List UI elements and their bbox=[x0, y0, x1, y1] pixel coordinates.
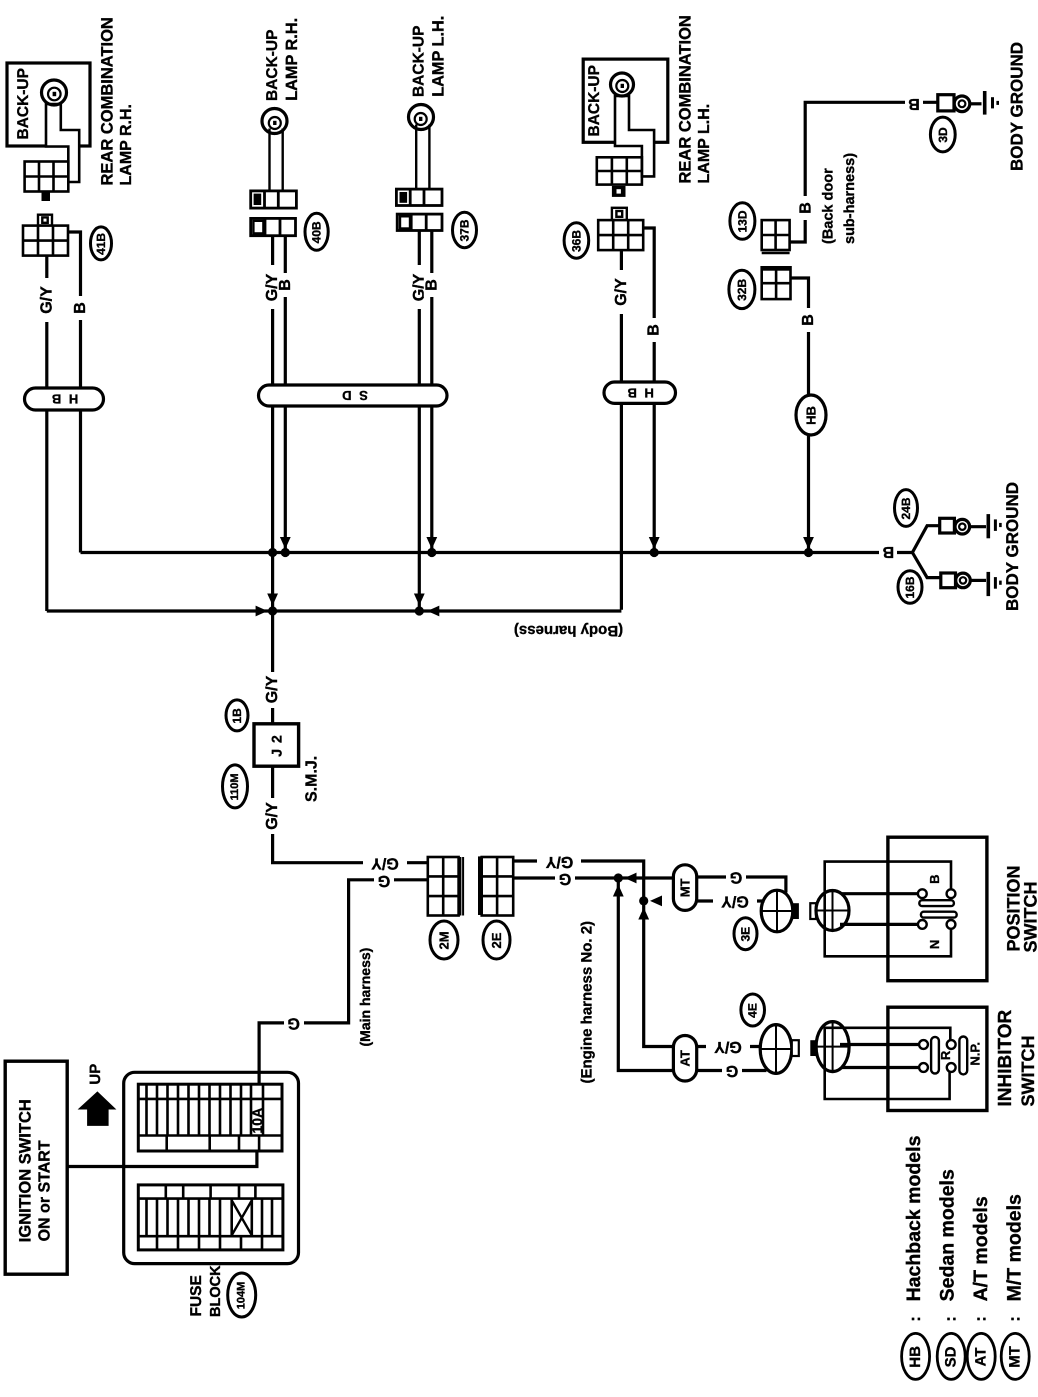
connector grid lamp-side L.H. bbox=[597, 157, 642, 184]
svg-text:sub-harness): sub-harness) bbox=[842, 153, 858, 244]
wire label B (40B) bbox=[277, 273, 294, 297]
harness connector pill SD bbox=[259, 385, 448, 406]
pin black lamp-side L.H. bbox=[612, 186, 626, 197]
wire G down from junction to AT branch bbox=[618, 878, 673, 1071]
svg-text:REAR COMBINATION: REAR COMBINATION bbox=[677, 15, 695, 183]
svg-text:10A: 10A bbox=[249, 1108, 265, 1134]
connector label oval 4E bbox=[741, 994, 765, 1026]
svg-text:REAR COMBINATION: REAR COMBINATION bbox=[99, 17, 117, 185]
connector label oval 3D bbox=[930, 117, 955, 152]
wire G/Y from back-up lamp RH connector 40B down to G/Y bus junction and on to S.M.J. bbox=[271, 236, 274, 724]
wire label G (AT to 4E) bbox=[722, 1062, 742, 1079]
position switch contact bar upper bbox=[919, 900, 954, 906]
svg-text:B: B bbox=[908, 95, 920, 112]
svg-text:B: B bbox=[646, 324, 663, 336]
wire label B (32B drop) bbox=[800, 308, 817, 332]
arrowhead B of 40B into B bus bbox=[280, 537, 291, 549]
connector label oval 2E bbox=[483, 921, 510, 959]
wire G/Y from connector 36B down then left along G/Y bus end bbox=[620, 250, 623, 610]
wire label B (37B) bbox=[423, 273, 440, 297]
wire G/Y from back-up lamp LH connector 37B down to G/Y bus bbox=[418, 231, 421, 612]
wire from ring terminal to ground 24B bbox=[970, 525, 986, 528]
wire label G (MT to 3E) bbox=[726, 869, 746, 886]
wire label G/Y (MT to 3E) bbox=[713, 893, 757, 910]
harness connector pill MT bbox=[673, 865, 696, 911]
svg-text:G/Y: G/Y bbox=[264, 675, 281, 703]
lamp internal thick trace R.H. bbox=[46, 104, 79, 182]
wire B from connector 36B right then down to B bus bbox=[643, 228, 654, 553]
wire label G/Y (40B) bbox=[264, 265, 281, 309]
position switch terminal circles bbox=[918, 889, 956, 929]
svg-text:G/Y: G/Y bbox=[714, 1038, 742, 1055]
svg-text:2M: 2M bbox=[437, 931, 452, 949]
bulb BACK-UP L.H. bbox=[611, 73, 634, 96]
wire label G/Y (41B) bbox=[38, 278, 55, 322]
connector grid 36B bbox=[598, 220, 643, 250]
ignition switch box bbox=[5, 1061, 67, 1274]
connector grid 41B bbox=[23, 226, 68, 256]
svg-text:IGNITION SWITCH: IGNITION SWITCH bbox=[16, 1099, 34, 1242]
wire G/Y from MT to position switch connector 3E bbox=[697, 899, 765, 902]
junction dot G at engine harness split bbox=[614, 873, 623, 882]
wire from ring terminal to ground 3D bbox=[970, 102, 982, 105]
connector circle 3E engine side bbox=[761, 890, 793, 932]
svg-text:36B: 36B bbox=[569, 230, 583, 252]
arrowhead G/Y of 40B into G/Y bus bbox=[267, 594, 278, 606]
bulb BACK-UP R.H. bbox=[42, 80, 67, 105]
wire label B (41B) bbox=[72, 296, 89, 320]
connector label oval 3E bbox=[734, 918, 757, 950]
lamp internal thick trace L.H. bbox=[615, 96, 654, 176]
svg-text::: : bbox=[943, 1316, 960, 1321]
wire label G/Y (36B) bbox=[613, 270, 630, 314]
connector label oval 32B bbox=[729, 270, 755, 308]
svg-text:BACK-UP: BACK-UP bbox=[264, 30, 281, 101]
svg-text:13D: 13D bbox=[735, 210, 749, 232]
connector label oval 37B bbox=[453, 212, 477, 247]
B bus fork to body grounds 24B and 16B bbox=[912, 526, 940, 578]
connector grid lamp-side R.H. bbox=[25, 162, 69, 192]
wire B from back-up lamp LH connector 37B down to B bus bbox=[430, 231, 433, 553]
svg-text:G: G bbox=[730, 869, 742, 886]
svg-text:H B: H B bbox=[626, 385, 654, 400]
svg-text:G/Y: G/Y bbox=[371, 854, 399, 871]
svg-text:1B: 1B bbox=[230, 708, 244, 724]
connector grid 2M bbox=[428, 857, 459, 916]
connector label oval 104M bbox=[228, 1273, 256, 1317]
inhibitor contact bar N.P. bbox=[959, 1037, 967, 1075]
connector grid 2E bbox=[482, 857, 514, 916]
svg-text:LAMP R.H.: LAMP R.H. bbox=[118, 104, 135, 185]
connector 4 black key bbox=[810, 1040, 816, 1056]
harness connector pill HB (rear L.H.) bbox=[604, 382, 676, 403]
svg-text:110M: 110M bbox=[229, 773, 241, 800]
wire label B (36B) bbox=[646, 318, 663, 342]
wire from ignition switch to fuse block bbox=[67, 1151, 257, 1167]
inhibitor contact bar R bbox=[931, 1037, 939, 1074]
svg-text:41B: 41B bbox=[94, 233, 108, 255]
svg-text:B: B bbox=[423, 279, 440, 291]
svg-text:MT: MT bbox=[678, 878, 693, 897]
svg-text:Sedan models: Sedan models bbox=[937, 1169, 959, 1301]
connector circle 4 switch side bbox=[816, 1022, 849, 1072]
svg-text:40B: 40B bbox=[310, 221, 324, 243]
svg-text:G/Y: G/Y bbox=[545, 853, 573, 870]
inhibitor switch terminal circles bbox=[919, 1040, 956, 1072]
svg-text:BACK-UP: BACK-UP bbox=[15, 68, 32, 139]
svg-text:(Engine harness No. 2): (Engine harness No. 2) bbox=[579, 921, 596, 1084]
legend oval AT bbox=[967, 1333, 995, 1379]
arrowhead G/Y from MT into junction bbox=[650, 896, 662, 907]
wire label B (13D riser) bbox=[798, 196, 815, 220]
svg-text:32B: 32B bbox=[735, 279, 749, 301]
position switch internal loop wire bbox=[825, 862, 951, 957]
pin open 37B bbox=[400, 216, 410, 228]
harness connector pill AT bbox=[673, 1036, 696, 1082]
wire label G/Y (before 2M) bbox=[363, 854, 407, 871]
wire B back door sub-harness from 13D up and right to body ground 3D bbox=[790, 102, 938, 242]
pin black lamp-side 40B mate bbox=[254, 194, 262, 205]
ring terminal 24B bbox=[955, 519, 970, 534]
svg-text:3D: 3D bbox=[936, 127, 950, 143]
arrowhead B of 36B into B bus bbox=[649, 537, 660, 549]
connector circle 3 switch side bbox=[816, 891, 849, 931]
svg-text:FUSE: FUSE bbox=[188, 1275, 205, 1316]
position switch box bbox=[888, 837, 987, 981]
svg-text:B: B bbox=[277, 279, 294, 291]
svg-text:AT: AT bbox=[678, 1050, 693, 1066]
svg-text::: : bbox=[907, 1316, 924, 1321]
svg-text:BACK-UP: BACK-UP bbox=[411, 26, 428, 97]
connector 3E black key bbox=[793, 903, 799, 919]
wire from ring terminal to ground 16B bbox=[970, 579, 986, 582]
junction dot G/Y crossing on B bus bbox=[268, 548, 277, 557]
ground symbol 24B bbox=[986, 514, 990, 538]
svg-text:BACK-UP: BACK-UP bbox=[586, 65, 603, 136]
svg-text:ON or START: ON or START bbox=[36, 1140, 53, 1241]
inhibitor switch box bbox=[888, 1007, 987, 1110]
inhibitor switch wire to terminal row N.P. bbox=[841, 1066, 919, 1069]
wire G from AT to inhibitor switch connector 4E bbox=[697, 1069, 767, 1072]
svg-text:G: G bbox=[559, 870, 571, 887]
svg-text:SD: SD bbox=[943, 1346, 960, 1367]
B bus horizontal wire bbox=[81, 551, 913, 554]
wire label G/Y (37B) bbox=[411, 265, 428, 309]
svg-text:B: B bbox=[800, 314, 817, 326]
junction dot B of 36B on B bus bbox=[650, 548, 659, 557]
connector label oval 2M bbox=[430, 921, 458, 959]
wire label G/Y (AT to 4E) bbox=[706, 1038, 750, 1055]
wire G/Y from AT to inhibitor switch connector 4E bbox=[697, 1045, 762, 1048]
svg-text:16B: 16B bbox=[903, 576, 917, 598]
arrowhead G from AT branch into junction bbox=[613, 885, 624, 897]
pin open harness-side 36B bbox=[612, 208, 627, 220]
junction dot B of 37B on B bus bbox=[427, 548, 436, 557]
svg-text:N: N bbox=[927, 940, 942, 949]
svg-text:A/T models: A/T models bbox=[970, 1196, 992, 1301]
connector label oval 40B bbox=[305, 213, 328, 250]
connector circle 4E engine side bbox=[760, 1025, 792, 1074]
arrowhead B of back door harness into B bus bbox=[803, 537, 814, 549]
wire B from connector 32B right then down through HB oval to B bus bbox=[791, 278, 809, 553]
connector label oval 1B bbox=[226, 700, 248, 731]
svg-text:SWITCH: SWITCH bbox=[1021, 882, 1038, 953]
lamp stem R.H. bbox=[270, 129, 283, 191]
svg-text:HB: HB bbox=[907, 1346, 924, 1368]
arrowhead G/Y of 41B into junction bbox=[256, 606, 268, 617]
position switch wire to terminal B bbox=[841, 892, 918, 895]
position switch wire to terminal N bbox=[840, 923, 918, 926]
connector row 37B bbox=[397, 214, 442, 230]
connector 3E open key bbox=[810, 903, 816, 919]
connector 2E mating face bbox=[478, 856, 482, 915]
svg-text:G/Y: G/Y bbox=[613, 278, 630, 306]
svg-text:S.M.J.: S.M.J. bbox=[304, 756, 321, 802]
wire label B (bus end) bbox=[879, 543, 897, 561]
pin open harness-side 41B bbox=[38, 215, 52, 226]
arrowhead B of 37B into B bus bbox=[426, 537, 437, 549]
svg-text:BLOCK: BLOCK bbox=[208, 1265, 224, 1317]
connector row lamp-side (37B mate) bbox=[396, 189, 442, 205]
bulb BACK-UP lamp L.H. bbox=[409, 105, 434, 130]
ground symbol 16B bbox=[986, 572, 990, 596]
svg-text:(Back door: (Back door bbox=[821, 168, 837, 244]
wire B from connector 41B right then down to B bus bbox=[68, 232, 80, 553]
connector row lamp-side (40B mate) bbox=[251, 191, 297, 208]
wire label G/Y (after 2E) bbox=[537, 853, 581, 870]
ground terminal box 16B bbox=[941, 573, 956, 588]
wire G from connector 2E right to engine-harness junction and to AT bbox=[513, 876, 673, 879]
svg-text:S D: S D bbox=[340, 388, 368, 403]
svg-text:UP: UP bbox=[87, 1064, 104, 1085]
inhibitor switch wire to terminal row R bbox=[840, 1043, 919, 1046]
svg-text:R: R bbox=[938, 1050, 953, 1060]
svg-text:B: B bbox=[927, 875, 942, 884]
wire label G (before 2M) bbox=[374, 872, 394, 889]
connector label oval 36B bbox=[564, 223, 589, 258]
svg-text:3E: 3E bbox=[739, 927, 753, 942]
ring terminal 3D bbox=[954, 96, 970, 112]
junction dot G/Y of 37B on G/Y bus bbox=[415, 606, 424, 615]
wire G/Y from connector 2E right then down to engine-harness junction and to AT bbox=[513, 861, 673, 1047]
svg-text:LAMP R.H.: LAMP R.H. bbox=[283, 18, 301, 101]
arrowhead G from MT into junction bbox=[625, 873, 637, 884]
junction dot B of 40B on B bus bbox=[281, 548, 290, 557]
wire B from back-up lamp RH connector 40B down to B bus bbox=[284, 236, 287, 553]
svg-text:B: B bbox=[72, 302, 89, 314]
svg-text:HB: HB bbox=[804, 406, 819, 425]
svg-text:G: G bbox=[726, 1062, 738, 1079]
pin black lamp-side R.H. bbox=[42, 192, 51, 202]
svg-text:BODY GROUND: BODY GROUND bbox=[1007, 42, 1026, 171]
connector 4E open key bbox=[792, 1040, 799, 1056]
svg-text:B: B bbox=[798, 202, 815, 214]
svg-text:104M: 104M bbox=[236, 1282, 248, 1310]
connector grid 32B bbox=[762, 267, 791, 299]
ring terminal 16B bbox=[956, 573, 971, 588]
wire G from fuse 10A up, right and up to connector 2M bbox=[259, 880, 428, 1084]
svg-text:LAMP L.H.: LAMP L.H. bbox=[696, 104, 713, 184]
connector label oval 13D bbox=[730, 203, 755, 240]
bulb BACK-UP lamp R.H. bbox=[262, 109, 287, 134]
fuse row upper bbox=[138, 1084, 282, 1151]
svg-text:G: G bbox=[378, 872, 390, 889]
svg-text:AT: AT bbox=[973, 1347, 990, 1366]
svg-text:4E: 4E bbox=[746, 1003, 760, 1018]
svg-text:B: B bbox=[883, 543, 895, 560]
position switch contact bar lower bbox=[921, 912, 957, 918]
svg-text:LAMP L.H.: LAMP L.H. bbox=[429, 16, 447, 97]
junction dot G/Y bus to S.M.J. bbox=[268, 606, 277, 615]
svg-text:BODY GROUND: BODY GROUND bbox=[1003, 482, 1022, 611]
wire label G/Y (below J2) bbox=[264, 798, 281, 834]
S.M.J. junction box J2 bbox=[254, 724, 299, 766]
svg-text::: : bbox=[973, 1316, 990, 1321]
ground terminal box 3D bbox=[938, 95, 954, 111]
G/Y bus horizontal wire bbox=[47, 609, 622, 612]
connector label oval 110M bbox=[223, 765, 248, 808]
wire label G/Y (above J2) bbox=[264, 672, 281, 708]
rear combination lamp L.H. housing box bbox=[583, 59, 668, 142]
connector row 40B bbox=[251, 218, 296, 235]
legend oval SD bbox=[937, 1333, 965, 1379]
inhibitor switch internal loop wire bbox=[825, 1028, 951, 1099]
svg-text:INHIBITOR: INHIBITOR bbox=[995, 1009, 1016, 1106]
svg-text:N.P.: N.P. bbox=[968, 1042, 983, 1066]
fuse block outline bbox=[124, 1072, 299, 1263]
arrowhead G/Y of 36B into junction bbox=[427, 606, 439, 617]
wire G/Y from S.M.J. J2 down then right to connector 2M bbox=[273, 766, 428, 863]
fuse row lower bbox=[138, 1185, 283, 1250]
svg-text:SWITCH: SWITCH bbox=[1018, 1036, 1038, 1107]
arrowhead G/Y of 37B into G/Y bus bbox=[414, 594, 425, 606]
wire G from MT to position switch connector 3E bbox=[697, 877, 786, 893]
harness connector oval HB (back door) bbox=[796, 395, 826, 435]
svg-text:2E: 2E bbox=[489, 932, 504, 948]
svg-text:(Body harness): (Body harness) bbox=[514, 622, 623, 639]
svg-text:MT: MT bbox=[1007, 1346, 1024, 1368]
pin black lamp-side 37B mate bbox=[400, 192, 408, 203]
svg-text:G/Y: G/Y bbox=[38, 286, 55, 314]
pin open 40B bbox=[253, 221, 263, 234]
svg-text:G/Y: G/Y bbox=[264, 802, 281, 830]
wire label G (after 2E) bbox=[555, 870, 575, 887]
svg-text:H B: H B bbox=[50, 392, 78, 407]
wire label B (near 3D ground) bbox=[905, 95, 923, 112]
svg-text::: : bbox=[1007, 1316, 1024, 1321]
wire G/Y from connector 41B down through pill HB to G/Y bus bbox=[45, 256, 48, 611]
connector label oval 24B bbox=[895, 490, 918, 527]
wire label G (fuse output) bbox=[284, 1014, 304, 1031]
svg-text:G: G bbox=[287, 1014, 299, 1031]
svg-text:24B: 24B bbox=[899, 497, 913, 519]
harness connector pill HB (rear R.H.) bbox=[25, 388, 104, 410]
legend oval MT bbox=[1001, 1333, 1029, 1379]
ground terminal box 24B bbox=[940, 518, 955, 533]
connector grid 13D bbox=[762, 220, 790, 253]
svg-text:37B: 37B bbox=[458, 219, 472, 241]
connector label oval 16B bbox=[898, 571, 922, 604]
UP arrow bbox=[78, 1091, 117, 1126]
connector 2M mating face bbox=[460, 857, 463, 916]
rear combination lamp R.H. housing box bbox=[7, 63, 90, 146]
legend oval HB bbox=[902, 1333, 930, 1379]
svg-text:J 2: J 2 bbox=[269, 734, 285, 756]
ground symbol 3D bbox=[983, 91, 987, 115]
svg-text:G/Y: G/Y bbox=[721, 893, 749, 910]
junction dot G/Y at engine harness split bbox=[639, 896, 648, 905]
connector label oval 41B bbox=[91, 227, 112, 260]
svg-text:Hachback models: Hachback models bbox=[903, 1135, 925, 1301]
lamp stem L.H. bbox=[416, 125, 429, 190]
arrowhead G/Y from AT branch into junction bbox=[638, 908, 649, 920]
svg-text:(Main harness): (Main harness) bbox=[357, 948, 373, 1047]
junction dot B of back door harness on B bus bbox=[804, 548, 813, 557]
svg-text:M/T models: M/T models bbox=[1004, 1194, 1026, 1301]
